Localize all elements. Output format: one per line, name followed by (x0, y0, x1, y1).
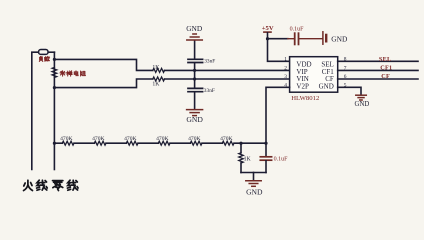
svg-text:GND: GND (186, 24, 203, 33)
svg-text:470K: 470K (60, 136, 72, 142)
svg-text:GND: GND (246, 187, 263, 196)
svg-text:0.1uF: 0.1uF (290, 26, 305, 32)
svg-text:V2P: V2P (296, 82, 309, 90)
svg-text:SEL: SEL (379, 56, 392, 63)
svg-text:470K: 470K (124, 136, 136, 142)
svg-text:GND: GND (319, 82, 334, 90)
svg-text:470K: 470K (156, 136, 168, 142)
svg-text:GND: GND (355, 101, 370, 108)
svg-text:470K: 470K (220, 136, 232, 142)
svg-text:+5V: +5V (262, 25, 274, 32)
svg-text:33nF: 33nF (204, 88, 215, 94)
svg-text:1: 1 (284, 56, 287, 62)
svg-text:3: 3 (284, 74, 287, 80)
svg-text:GND: GND (331, 35, 348, 44)
svg-text:1K: 1K (152, 82, 160, 88)
svg-text:HLW8012: HLW8012 (291, 95, 319, 102)
svg-text:4: 4 (284, 82, 287, 88)
svg-text:33nF: 33nF (204, 59, 215, 65)
svg-text:6: 6 (344, 74, 347, 80)
svg-text:CF: CF (381, 73, 390, 80)
svg-text:470K: 470K (92, 136, 104, 142)
svg-text:0.1uF: 0.1uF (274, 156, 289, 162)
svg-text:5: 5 (344, 82, 347, 88)
svg-text:2: 2 (284, 66, 287, 72)
svg-text:1K: 1K (152, 65, 160, 71)
svg-text:CF1: CF1 (380, 64, 392, 71)
svg-text:7: 7 (344, 66, 347, 72)
svg-text:470K: 470K (188, 136, 200, 142)
svg-text:GND: GND (186, 115, 203, 124)
svg-text:8: 8 (344, 56, 347, 62)
svg-text:1K: 1K (244, 156, 252, 162)
